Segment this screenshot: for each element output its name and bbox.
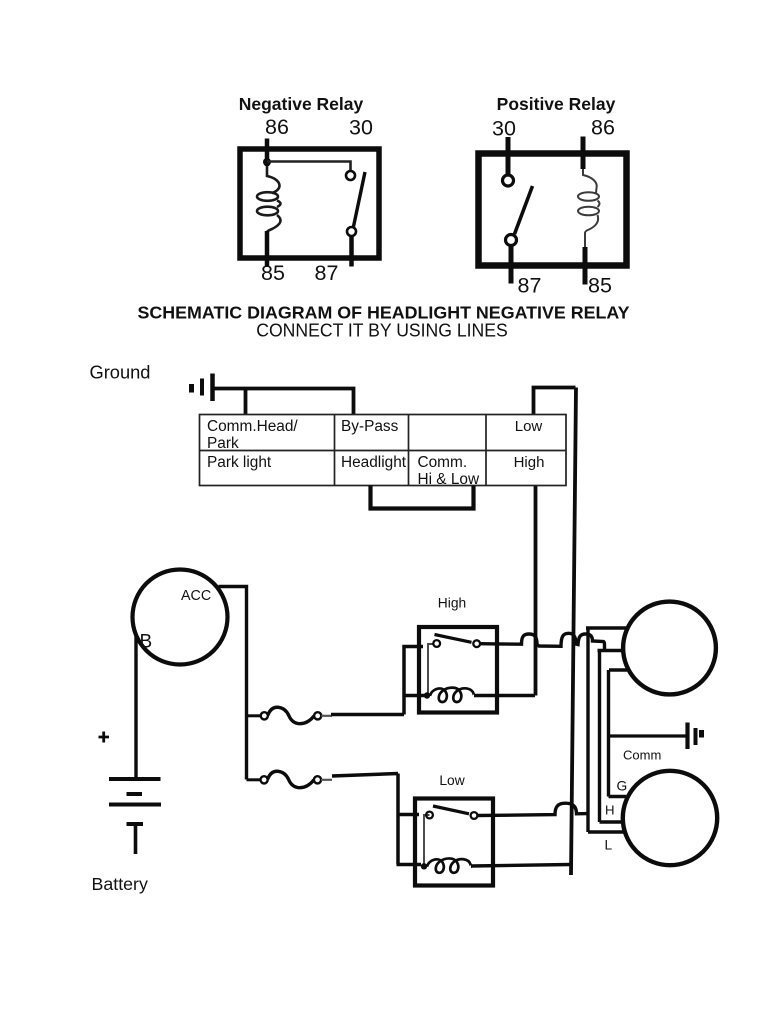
pin label 30 (positive relay) bbox=[492, 117, 516, 141]
wire B terminal down to battery bbox=[134, 635, 137, 778]
switch blade (negative relay) bbox=[354, 172, 366, 227]
pin label 30 (negative relay) bbox=[349, 116, 373, 140]
svg-text:H: H bbox=[605, 803, 615, 818]
svg-text:Comm.: Comm. bbox=[418, 454, 468, 471]
svg-text:86: 86 bbox=[265, 115, 289, 139]
label B bbox=[140, 632, 153, 653]
wire terminal 3 (top headlight, ground/comm) bbox=[609, 668, 627, 671]
fuse F1 (high) bbox=[261, 707, 332, 723]
ignition switch circle bbox=[133, 570, 228, 665]
relay K3 High body bbox=[419, 627, 497, 713]
svg-text:Park: Park bbox=[207, 435, 239, 452]
L stub to bottom headlight bbox=[588, 830, 624, 833]
svg-text:30: 30 bbox=[492, 117, 516, 141]
pin 30 stub (positive relay) bbox=[506, 137, 511, 175]
pin label 86 (negative relay) bbox=[265, 115, 289, 139]
wire fuse 2 to Low relay bbox=[332, 774, 398, 865]
coil L2 (positive relay, thin) bbox=[578, 169, 600, 247]
contact circle left (High) bbox=[433, 640, 440, 647]
wire Low coil to long ground wire bbox=[471, 865, 571, 867]
ground symbol (left, lying) bbox=[192, 374, 213, 402]
long wire down to Low relay coil bbox=[571, 388, 576, 876]
junction dot (coil/wire node) bbox=[263, 158, 271, 166]
svg-text:87: 87 bbox=[518, 274, 542, 298]
junction dot (Low coil) bbox=[421, 863, 427, 869]
pin 87 stub (positive relay) bbox=[509, 246, 514, 284]
label Battery bbox=[92, 874, 148, 894]
svg-text:Park light: Park light bbox=[207, 454, 272, 471]
contact circle right (High) bbox=[473, 640, 480, 647]
label L bbox=[605, 838, 613, 853]
switch blade (positive relay) bbox=[515, 186, 533, 234]
svg-text:Battery: Battery bbox=[92, 874, 148, 894]
svg-text:By-Pass: By-Pass bbox=[341, 418, 399, 435]
relay K2 positive relay body bbox=[479, 154, 627, 266]
wire Low cell up and over bbox=[534, 388, 576, 416]
pin label 85 (negative relay) bbox=[261, 261, 285, 285]
label High bbox=[438, 596, 466, 611]
label ACC bbox=[181, 588, 211, 604]
wire fuse 1 to High relay bbox=[331, 647, 423, 715]
contact circle 87 (negative relay) bbox=[347, 227, 356, 236]
wire branch to High relay coil bbox=[404, 694, 425, 698]
wire terminal 2 (top headlight, High) bbox=[598, 649, 623, 652]
label Comm bbox=[623, 748, 661, 763]
wire branch to Low relay switch bbox=[398, 813, 419, 817]
H stub to bottom headlight bbox=[600, 820, 622, 823]
svg-text:CONNECT IT BY USING LINES: CONNECT IT BY USING LINES bbox=[256, 321, 508, 341]
junction dot (High coil) bbox=[424, 692, 430, 698]
G bus vertical bbox=[607, 670, 610, 797]
label H bbox=[605, 803, 615, 818]
wire branch down to Comm.Head/Park cell bbox=[244, 389, 248, 416]
svg-text:High: High bbox=[514, 454, 545, 471]
relay K1 negative relay body bbox=[240, 149, 379, 258]
label Negative Relay title bbox=[239, 94, 364, 114]
subtitle text bbox=[256, 321, 508, 341]
contact circle 30 (positive relay) bbox=[503, 175, 514, 186]
contact circle left (Low) bbox=[426, 812, 433, 819]
wire Low switch output with hop bbox=[478, 803, 589, 815]
L bus vertical bbox=[586, 628, 589, 832]
bracket joining Headlight and Comm Hi&Low bbox=[371, 486, 474, 509]
label Low bbox=[439, 773, 464, 788]
switch blade (Low) bbox=[433, 806, 469, 814]
svg-text:High: High bbox=[438, 596, 466, 611]
svg-text:Negative Relay: Negative Relay bbox=[239, 94, 364, 114]
coil L1 (negative relay) bbox=[257, 166, 281, 232]
wire terminal 1 (top headlight, from Low) bbox=[586, 626, 626, 629]
svg-text:87: 87 bbox=[315, 261, 339, 285]
svg-text:Comm.Head/: Comm.Head/ bbox=[207, 418, 298, 435]
wire coil-top to switch contact 30 bbox=[267, 162, 351, 172]
svg-text:Hi & Low: Hi & Low bbox=[418, 471, 480, 488]
svg-text:86: 86 bbox=[591, 116, 615, 140]
pin 86 stub bbox=[265, 139, 270, 167]
G stub to bottom headlight bbox=[609, 795, 627, 798]
pin 85 stub (positive relay) bbox=[583, 247, 588, 285]
pin label 86 (positive relay) bbox=[591, 116, 615, 140]
pin label 87 (positive relay) bbox=[518, 274, 542, 298]
contact circle 87 (positive relay) bbox=[506, 235, 517, 246]
wire High switch output with hops bbox=[481, 633, 605, 650]
wire High coil to table High cell bbox=[474, 694, 535, 697]
terminal table grid bbox=[200, 415, 567, 486]
label Ground bbox=[90, 362, 151, 383]
svg-text:G: G bbox=[617, 779, 628, 794]
svg-text:SCHEMATIC DIAGRAM OF HEADLIGHT: SCHEMATIC DIAGRAM OF HEADLIGHT NEGATIVE … bbox=[138, 303, 630, 323]
pin 86 stub (positive relay) bbox=[581, 137, 586, 170]
svg-text:30: 30 bbox=[349, 116, 373, 140]
wire High cell down to High relay coil bbox=[534, 486, 538, 696]
headline text bbox=[138, 303, 630, 323]
contact circle right (Low) bbox=[471, 812, 478, 819]
svg-text:85: 85 bbox=[588, 274, 612, 298]
wire branch to Low relay coil bbox=[397, 863, 422, 867]
label G bbox=[617, 779, 628, 794]
coil L3 (High) bbox=[430, 688, 474, 702]
svg-text:Comm: Comm bbox=[623, 748, 661, 763]
pin label 87 (negative relay) bbox=[315, 261, 339, 285]
svg-text:Headlight: Headlight bbox=[341, 454, 407, 471]
pin 85 stub bbox=[265, 231, 270, 267]
internal wire pivot to coil (High) bbox=[428, 644, 433, 696]
wire branch to fuse 2 bbox=[247, 778, 261, 781]
label + (battery positive) bbox=[99, 732, 110, 743]
headlamp circle bottom bbox=[623, 771, 717, 865]
svg-text:L: L bbox=[605, 838, 613, 853]
label Positive Relay title bbox=[497, 94, 616, 114]
pin label 85 (positive relay) bbox=[588, 274, 612, 298]
pin 87 stub bbox=[349, 236, 354, 267]
switch blade (High) bbox=[435, 635, 472, 643]
svg-text:Ground: Ground bbox=[90, 362, 151, 383]
wire ground to table (Comm.Head/Park and By-Pass) bbox=[212, 389, 354, 416]
internal wire pivot to coil (Low) bbox=[424, 815, 430, 866]
table cell texts bbox=[207, 418, 544, 488]
coil L4 (Low) bbox=[427, 858, 471, 872]
battery symbol bbox=[109, 779, 161, 854]
wire ACC to fuses bbox=[219, 587, 247, 780]
svg-text:85: 85 bbox=[261, 261, 285, 285]
svg-text:Low: Low bbox=[439, 773, 464, 788]
headlamp circle top bbox=[623, 602, 716, 695]
svg-text:Low: Low bbox=[515, 418, 543, 435]
H bus vertical bbox=[598, 651, 601, 823]
contact circle 30 (negative relay) bbox=[346, 171, 355, 180]
wire branch to fuse 1 bbox=[247, 714, 261, 717]
svg-text:Positive Relay: Positive Relay bbox=[497, 94, 616, 114]
wire comm to ground symbol bbox=[609, 734, 686, 737]
fuse F2 (low) bbox=[261, 771, 333, 787]
relay K4 Low body bbox=[415, 799, 493, 886]
ground symbol (right) bbox=[688, 723, 702, 750]
svg-text:ACC: ACC bbox=[181, 588, 211, 604]
svg-text:B: B bbox=[140, 632, 153, 653]
